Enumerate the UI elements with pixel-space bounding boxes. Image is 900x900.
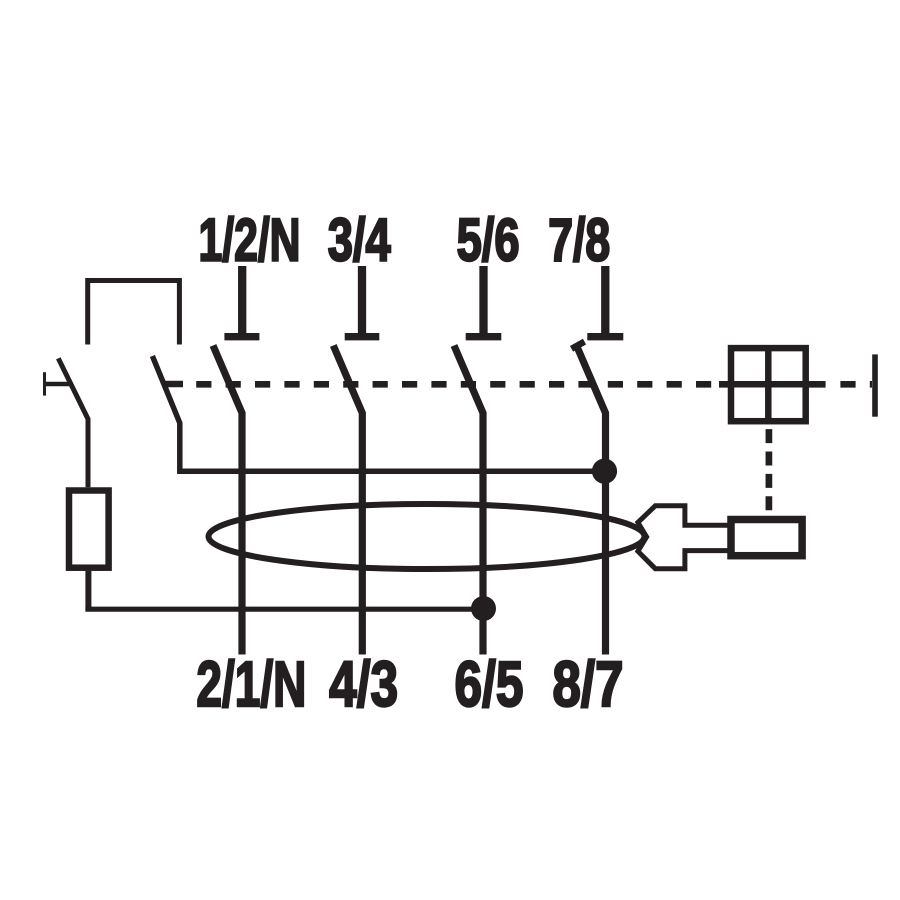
- terminal arrow pole 4: [587, 266, 623, 337]
- terminal arrow pole 3: [466, 266, 502, 337]
- trip release arrow polygon: [638, 506, 731, 569]
- test button terminal bar: [43, 372, 46, 395]
- svg-text:5/6: 5/6: [457, 206, 520, 273]
- junction dot on pole 4: [592, 459, 617, 484]
- mechanical linkage dashed line (first long dash): [165, 381, 184, 388]
- linkage solid line under mechanism box: [719, 381, 826, 388]
- svg-text:2/1/N: 2/1/N: [196, 648, 306, 720]
- mechanism box (2x2 grid): [731, 348, 806, 421]
- wire below resistor: [85, 571, 91, 609]
- test resistor: [69, 491, 109, 568]
- switch pole 3 blade and conductor: [454, 346, 483, 655]
- svg-text:1/2/N: 1/2/N: [199, 206, 301, 273]
- test switch blade 2 and wire to pole 4: [152, 356, 604, 471]
- svg-text:8/7: 8/7: [553, 648, 624, 720]
- svg-text:3/4: 3/4: [328, 206, 391, 273]
- terminal arrow pole 2: [345, 266, 380, 337]
- mechanical linkage dashed line right of box: [840, 381, 872, 388]
- actuator tick on pole 4 blade: [572, 342, 585, 349]
- svg-text:7/8: 7/8: [548, 206, 610, 273]
- switch pole 1 blade and conductor: [213, 346, 242, 655]
- svg-text:4/3: 4/3: [329, 648, 398, 720]
- switch pole 2 blade and conductor: [333, 346, 362, 655]
- svg-text:6/5: 6/5: [455, 648, 524, 720]
- terminal arrow pole 1 (stub + bar): [224, 266, 259, 337]
- current transformer ellipse: [209, 504, 645, 569]
- test switch blade 1 and lead to resistor: [58, 358, 88, 487]
- mechanism box inner cross: [731, 348, 806, 421]
- test linkage bracket: [88, 281, 180, 345]
- bottom test wire to pole 3: [85, 607, 483, 612]
- junction dot on pole 3: [471, 596, 496, 621]
- trip linkage vertical dashed line: [766, 429, 773, 516]
- trip relay box: [731, 520, 802, 556]
- mechanical linkage dashed line: [196, 381, 719, 388]
- right terminal bar: [872, 354, 878, 416]
- test button wire: [45, 382, 71, 387]
- switch pole 4 blade and conductor: [577, 346, 606, 655]
